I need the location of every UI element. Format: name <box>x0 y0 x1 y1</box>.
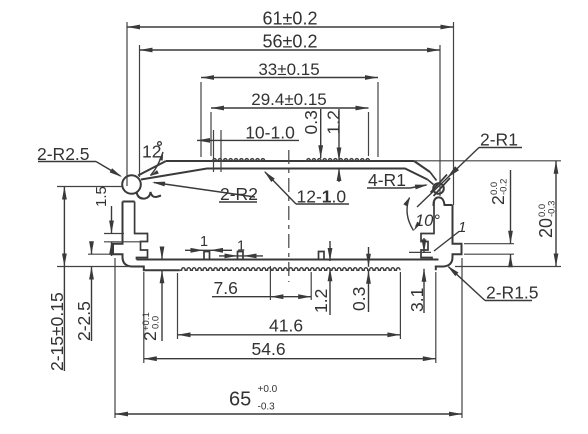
ext 41.6 right <box>399 272 401 339</box>
ext 54.6 left <box>143 272 145 363</box>
svg-text:20: 20 <box>536 218 556 238</box>
ext 3.1 top <box>409 251 431 253</box>
profile: cover left end bead R2.5 <box>122 175 141 194</box>
svg-text:2-15±0.15: 2-15±0.15 <box>47 292 67 371</box>
dim 1.5 vertical line <box>111 206 113 234</box>
ext 2.5 top fin bottom <box>88 253 114 255</box>
label 20 0.0/-0.3 rotated <box>536 201 558 238</box>
dim 2 0.0/-0.2 right vertical <box>510 170 512 244</box>
profile: bottom plate inner surface <box>137 259 439 261</box>
svg-text:2-R2.5: 2-R2.5 <box>37 144 90 164</box>
leader 2-R1.5 <box>485 300 532 302</box>
dim 1.2 top vertical <box>338 109 340 161</box>
dim 1 rib2 pitch arrows <box>219 255 263 257</box>
profile: PCB rib 2 <box>238 252 244 260</box>
dim 0.3 bottom vertical <box>368 247 370 267</box>
profile: cover top right slant into clip <box>414 161 430 172</box>
svg-text:33±0.15: 33±0.15 <box>258 60 319 79</box>
ext 15 top at bead center <box>57 186 122 188</box>
leader 4-R1 <box>367 187 410 189</box>
svg-text:1.2: 1.2 <box>311 289 331 313</box>
dim 2-2.5 vertical line <box>91 244 93 254</box>
profile: cover top surface line <box>166 160 414 162</box>
ext 54.6 right <box>435 272 437 363</box>
profile: right wall <box>444 205 462 267</box>
leader 12-1.0 <box>296 203 349 205</box>
profile: cover top serration band 10-1.0 <box>211 159 265 161</box>
leader 1 italic slot <box>434 232 459 252</box>
dim 2-15±0.15 vertical line <box>63 187 65 372</box>
profile: cover left 12-degree slant top surface <box>138 161 166 176</box>
dim 10-1.0 line <box>197 139 299 141</box>
ext 65 left <box>114 258 116 418</box>
svg-text:2-R2: 2-R2 <box>220 184 258 204</box>
dim 33±0.15 line <box>201 77 378 79</box>
svg-text:2: 2 <box>488 195 508 205</box>
dim 1 rib1 pitch arrows <box>185 249 232 251</box>
ext 29.4 right <box>368 112 370 156</box>
profile: cover top serration band 12-1.0 <box>305 159 369 161</box>
dim 54.6 line <box>144 358 436 360</box>
svg-text:29.4±0.15: 29.4±0.15 <box>251 90 327 109</box>
svg-text:61±0.2: 61±0.2 <box>263 9 318 29</box>
profile: clip neck edges <box>428 172 437 185</box>
svg-text:2-R1: 2-R1 <box>480 130 518 150</box>
ext 1.5 lower <box>104 241 142 243</box>
svg-text:+0.0: +0.0 <box>258 384 278 395</box>
svg-text:4-R1: 4-R1 <box>368 170 406 190</box>
svg-text:10-1.0: 10-1.0 <box>245 123 295 143</box>
svg-text:1.5: 1.5 <box>93 186 110 207</box>
angle 10 deg arc arrow <box>407 198 413 231</box>
ext 1.5 upper <box>104 233 124 235</box>
svg-text:41.6: 41.6 <box>269 316 303 336</box>
svg-text:0.3: 0.3 <box>349 287 369 311</box>
ext 20 top <box>414 160 561 162</box>
dim 61±0.2 line <box>127 26 454 28</box>
svg-text:1: 1 <box>237 239 245 255</box>
profile: clip end bulb 2-R1 keyhole <box>433 183 444 194</box>
label 65 +0.0/-0.3 <box>229 384 278 413</box>
svg-text:3.1: 3.1 <box>407 288 427 312</box>
dim 0.3 top vertical <box>320 109 322 158</box>
ext 2 right upper <box>464 243 514 245</box>
ext 2 right lower <box>464 253 514 255</box>
profile: base right rib engaging clip <box>434 197 453 205</box>
svg-text:-0.3: -0.3 <box>258 402 276 413</box>
ext 33 right <box>377 82 379 157</box>
ext 56 right <box>439 45 441 196</box>
dim 56±0.2 line <box>140 49 441 51</box>
svg-text:1: 1 <box>458 219 466 236</box>
profile: cover underside slant and flat <box>141 169 428 180</box>
dim 41.6 line <box>178 334 401 336</box>
dim 3.1 vertical <box>423 238 425 252</box>
svg-text:54.6: 54.6 <box>252 339 286 359</box>
dim 20 0/-0.3 right vertical <box>555 161 557 267</box>
ext bottom-left bottom edge <box>57 266 131 268</box>
ext 56 left <box>139 45 141 177</box>
ext 7.6 right <box>310 272 312 300</box>
dim 1.2 bottom vertical <box>329 241 331 261</box>
ext 61 left <box>126 22 128 186</box>
ext tick b <box>220 130 222 172</box>
profile: clip slot slash lines (10 deg slot) <box>431 175 448 193</box>
svg-text:10°: 10° <box>415 212 440 230</box>
ext 29.4 left <box>210 112 212 156</box>
profile: cover left hook R2 <box>137 192 162 199</box>
dim 65 line <box>115 413 462 415</box>
leader 2-R2 <box>219 201 257 203</box>
centerline <box>288 150 290 282</box>
svg-text:7.6: 7.6 <box>214 278 238 298</box>
ext 20 bottom <box>455 266 561 268</box>
ext tick a <box>213 130 215 172</box>
svg-text:2: 2 <box>140 331 160 341</box>
svg-text:1: 1 <box>200 234 208 250</box>
angle 12 deg arc arrow <box>151 152 164 176</box>
dim 7.6 line <box>212 296 311 298</box>
ext 7.6 left <box>269 266 271 300</box>
ext 33 left <box>200 82 202 157</box>
profile: bottom outer surface with feet and serrated band <box>132 267 444 271</box>
ext 61 right <box>453 22 455 205</box>
profile: PCB rib 1 on bottom inner surface <box>204 252 210 260</box>
profile: left wall inner face and screw-slot <box>135 202 148 260</box>
ext 41.6 left <box>177 273 179 339</box>
leader 2-R1 <box>479 147 522 149</box>
svg-text:0.0: 0.0 <box>151 316 162 329</box>
profile: left wall <box>113 202 135 267</box>
svg-text:65: 65 <box>229 389 251 411</box>
svg-text:1.2: 1.2 <box>324 110 344 134</box>
svg-text:0.3: 0.3 <box>301 110 321 134</box>
svg-text:12-1.0: 12-1.0 <box>297 187 347 207</box>
svg-text:56±0.2: 56±0.2 <box>263 32 318 52</box>
dim 29.4±0.15 line <box>211 107 369 109</box>
dim 2+0.1/0.0 vertical line <box>161 247 163 260</box>
label 2 +0.1/0.0 rotated <box>140 312 162 341</box>
svg-text:2-2.5: 2-2.5 <box>74 301 94 341</box>
svg-text:2-R1.5: 2-R1.5 <box>486 283 539 303</box>
profile: right wall inner face and screw-slot <box>421 201 434 260</box>
svg-text:-0.2: -0.2 <box>499 179 510 195</box>
leader 2-R2.5 <box>38 161 96 163</box>
profile: PCB rib 3 <box>319 252 325 260</box>
svg-text:-0.3: -0.3 <box>547 201 558 217</box>
ext 65 right <box>461 258 463 418</box>
label 2 0.0/-0.2 rotated <box>488 179 510 205</box>
